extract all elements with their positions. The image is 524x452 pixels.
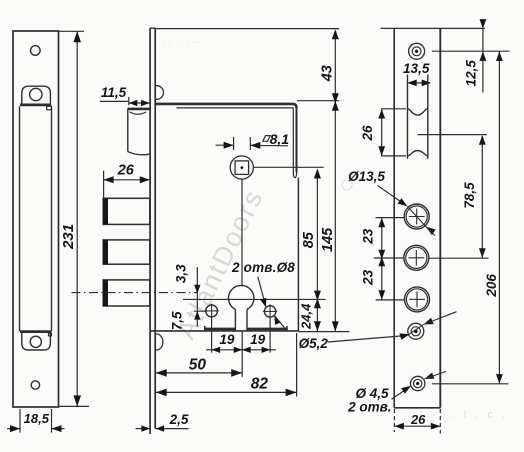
svg-text:78,5: 78,5 (462, 182, 477, 209)
svg-text:Ø13,5: Ø13,5 (348, 169, 385, 184)
svg-text:23: 23 (361, 228, 376, 245)
svg-text:43: 43 (320, 65, 336, 82)
svg-text:19: 19 (250, 332, 266, 347)
svg-text:12,5: 12,5 (463, 60, 478, 87)
svg-text:145: 145 (320, 227, 336, 252)
svg-text:50: 50 (189, 356, 207, 373)
svg-text:26: 26 (410, 412, 426, 427)
svg-text:Ø 4,5: Ø 4,5 (355, 386, 389, 401)
svg-text:18,5: 18,5 (24, 411, 50, 426)
svg-text:82: 82 (251, 375, 269, 392)
svg-text:13,5: 13,5 (403, 61, 430, 76)
svg-text:2 отв.Ø8: 2 отв.Ø8 (231, 260, 295, 275)
svg-text:85: 85 (301, 231, 317, 248)
svg-text:24,4: 24,4 (299, 303, 314, 330)
svg-text:Ø5,2: Ø5,2 (299, 336, 329, 351)
svg-text:26: 26 (360, 125, 375, 142)
svg-text:206: 206 (484, 274, 499, 298)
svg-text:23: 23 (361, 269, 376, 286)
svg-text:11,5: 11,5 (101, 85, 127, 100)
svg-text:2 отв.: 2 отв. (347, 400, 391, 415)
svg-text:2,5: 2,5 (169, 412, 189, 427)
svg-text:231: 231 (60, 224, 77, 250)
svg-text:7,5: 7,5 (169, 311, 184, 330)
svg-text:3,3: 3,3 (174, 264, 189, 283)
svg-text:8,1: 8,1 (270, 131, 290, 147)
svg-text:19: 19 (219, 332, 235, 347)
svg-text:.. . ...: .. . ... (163, 35, 201, 46)
svg-text:26: 26 (117, 162, 135, 178)
